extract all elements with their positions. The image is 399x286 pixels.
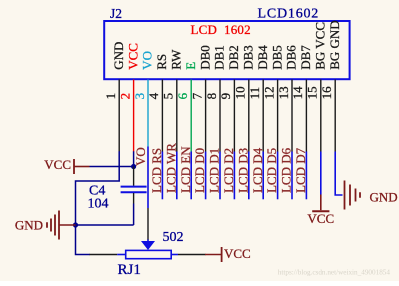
svg-text:RJ1: RJ1: [118, 262, 141, 278]
svg-text:J2: J2: [110, 6, 122, 21]
svg-text:https://blog.csdn.net/weixin_4: https://blog.csdn.net/weixin_49001854: [278, 269, 391, 277]
svg-text:LCD 1602: LCD 1602: [191, 22, 251, 37]
svg-text:GND: GND: [370, 190, 398, 205]
svg-text:RW: RW: [169, 49, 184, 70]
svg-text:DB5: DB5: [269, 45, 284, 70]
svg-text:DB3: DB3: [241, 45, 256, 70]
svg-text:LCD WR: LCD WR: [163, 143, 178, 193]
svg-text:GND: GND: [111, 42, 126, 70]
svg-text:LCD RS: LCD RS: [149, 148, 164, 193]
svg-text:104: 104: [88, 197, 109, 212]
svg-text:BG GND: BG GND: [327, 20, 342, 69]
svg-text:DB0: DB0: [197, 45, 212, 70]
svg-text:VCC: VCC: [44, 157, 71, 172]
svg-text:LCD D1: LCD D1: [207, 148, 222, 193]
svg-text:LCD D6: LCD D6: [279, 147, 294, 193]
svg-text:VCC: VCC: [224, 246, 251, 261]
svg-text:LCD EN: LCD EN: [178, 146, 193, 193]
svg-text:1: 1: [103, 93, 118, 100]
svg-text:GND: GND: [15, 218, 43, 233]
svg-text:VO: VO: [140, 51, 155, 70]
svg-text:DB7: DB7: [298, 45, 313, 70]
svg-text:LCD D0: LCD D0: [192, 148, 207, 193]
svg-text:DB6: DB6: [284, 45, 299, 70]
svg-text:LCD D4: LCD D4: [250, 147, 265, 193]
svg-text:LCD D2: LCD D2: [221, 148, 236, 193]
svg-text:BG VCC: BG VCC: [313, 22, 328, 70]
svg-text:502: 502: [163, 230, 184, 245]
svg-text:DB2: DB2: [226, 45, 241, 70]
svg-text:LCD D3: LCD D3: [235, 148, 250, 193]
svg-text:DB1: DB1: [212, 45, 227, 70]
svg-text:E: E: [183, 62, 198, 70]
svg-text:LCD D5: LCD D5: [264, 148, 279, 193]
svg-text:RS: RS: [154, 54, 169, 70]
svg-text:LCD D7: LCD D7: [293, 147, 308, 193]
svg-text:VO: VO: [133, 147, 148, 166]
svg-text:VCC: VCC: [307, 211, 334, 226]
svg-text:DB4: DB4: [255, 45, 270, 70]
svg-text:VCC: VCC: [125, 43, 140, 70]
svg-text:LCD1602: LCD1602: [258, 7, 320, 22]
